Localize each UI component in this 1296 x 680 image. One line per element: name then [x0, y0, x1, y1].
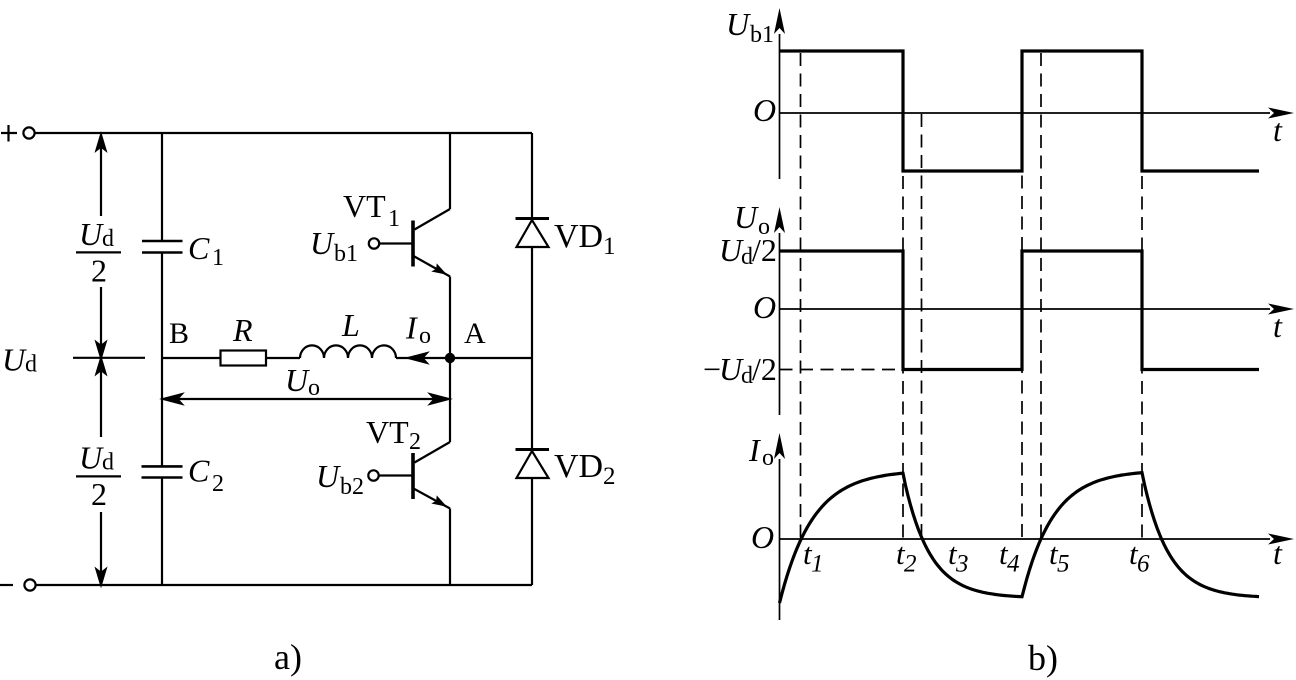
svg-text:4: 4 — [1007, 551, 1020, 578]
label Ub2 — [316, 458, 364, 500]
label VT2 — [366, 414, 421, 455]
label C2 — [188, 453, 224, 498]
svg-text:3: 3 — [955, 551, 969, 578]
dashed line t3 — [921, 114, 923, 539]
dashed line t4 — [1021, 114, 1023, 539]
diode VD2 — [516, 358, 550, 585]
label O origin 1 — [753, 92, 776, 128]
svg-text:A: A — [464, 317, 486, 350]
svg-text:2: 2 — [409, 429, 421, 455]
label t4 — [999, 536, 1020, 578]
axis Uo plot — [774, 207, 1294, 415]
svg-text:6: 6 — [1137, 551, 1150, 578]
svg-text:VT: VT — [343, 188, 386, 224]
svg-text:L: L — [341, 307, 360, 343]
svg-text:1: 1 — [603, 233, 616, 260]
waveform Uo square wave — [780, 251, 1260, 370]
svg-text:o: o — [419, 323, 431, 349]
label Ud source — [2, 342, 37, 378]
dimension arrow Ud/2 lower — [97, 359, 106, 585]
svg-text:5: 5 — [1057, 551, 1070, 578]
plus terminal sign — [1, 125, 17, 142]
svg-text:U: U — [79, 440, 104, 476]
svg-text:U: U — [310, 225, 335, 261]
label O origin 2 — [753, 289, 776, 325]
wire R to L — [266, 357, 300, 359]
svg-text:1: 1 — [388, 206, 400, 232]
diode VD1 — [516, 133, 550, 358]
waveform Ub1 square wave — [780, 51, 1260, 171]
wire mid line B to R — [162, 357, 221, 359]
capacitor C1 — [142, 241, 183, 253]
svg-text:U: U — [734, 199, 759, 235]
dashed level -Ud/2 — [780, 369, 904, 371]
label Ud fraction lower — [76, 440, 121, 513]
svg-text:C: C — [188, 453, 210, 489]
svg-text:a): a) — [274, 637, 302, 677]
svg-text:d: d — [25, 352, 37, 378]
svg-text:b1: b1 — [334, 241, 358, 267]
label R — [232, 312, 253, 348]
svg-text:U: U — [79, 216, 104, 252]
svg-text:O: O — [753, 289, 776, 325]
label C1 — [188, 230, 224, 271]
dimension tick Ud mid — [73, 357, 145, 359]
axis Io plot — [774, 433, 1294, 620]
svg-text:I: I — [405, 310, 418, 346]
waveform Io current curve — [780, 473, 1260, 603]
svg-text:2: 2 — [91, 253, 107, 289]
inductor L — [300, 345, 396, 358]
wire bottom rail — [36, 584, 532, 586]
label t axis 1 — [1273, 112, 1283, 148]
dashed line t1 — [800, 53, 802, 539]
resistor R — [221, 351, 267, 366]
dimension arrow Ud/2 upper — [97, 135, 106, 358]
svg-text:O: O — [753, 92, 776, 128]
node A junction dot — [445, 353, 455, 363]
label b) — [1028, 638, 1058, 678]
svg-text:VT: VT — [366, 414, 409, 450]
label Ud fraction upper — [76, 216, 121, 289]
transistor VT1 — [369, 133, 450, 358]
svg-text:o: o — [308, 375, 320, 401]
label Ud/2 level — [719, 232, 777, 270]
wire capacitor branch — [161, 133, 163, 585]
label t2 — [896, 536, 917, 578]
svg-text:/2: /2 — [752, 232, 777, 268]
label node A — [464, 317, 486, 350]
wire top rail — [35, 132, 532, 134]
svg-text:R: R — [232, 312, 253, 348]
label Ub1 axis — [726, 6, 774, 48]
svg-text:/2: /2 — [752, 351, 777, 387]
svg-text:t: t — [1273, 535, 1283, 571]
svg-text:VD: VD — [554, 448, 603, 485]
svg-text:U: U — [2, 342, 27, 378]
dashed line t2 — [902, 53, 904, 539]
svg-text:b2: b2 — [340, 474, 364, 500]
label VD2 — [554, 448, 616, 490]
svg-text:b1: b1 — [750, 22, 774, 48]
label t axis 2 — [1273, 308, 1283, 344]
label t5 — [1049, 536, 1070, 578]
label a) — [274, 637, 302, 677]
label Uo circuit — [285, 362, 320, 401]
svg-text:1: 1 — [212, 245, 224, 271]
svg-text:2: 2 — [91, 476, 107, 512]
dimension arrow Uo — [164, 394, 449, 403]
svg-text:2: 2 — [904, 551, 917, 578]
label VT1 — [343, 188, 400, 232]
positive terminal circle — [23, 127, 34, 138]
svg-text:2: 2 — [212, 471, 224, 497]
svg-text:U: U — [726, 6, 751, 42]
label Uo axis — [734, 199, 770, 240]
label t axis 3 — [1273, 535, 1283, 571]
label t1 — [803, 536, 824, 578]
svg-text:VD: VD — [554, 218, 603, 255]
svg-text:I: I — [748, 432, 761, 468]
label Ub1 — [310, 225, 358, 267]
dashed line t5 — [1040, 53, 1042, 539]
svg-text:C: C — [188, 230, 210, 266]
negative terminal circle — [24, 579, 35, 590]
svg-text:O: O — [751, 519, 774, 555]
svg-text:d: d — [102, 450, 114, 476]
svg-text:t: t — [1273, 308, 1283, 344]
svg-text:t: t — [1273, 112, 1283, 148]
svg-text:b): b) — [1028, 638, 1058, 678]
svg-text:U: U — [285, 362, 310, 398]
capacitor C2 — [142, 466, 183, 477]
transistor VT2 — [368, 358, 450, 585]
dashed line t6 — [1141, 53, 1143, 539]
minus terminal sign — [0, 584, 13, 586]
axis Ub1 plot — [774, 8, 1294, 179]
label node B — [169, 317, 189, 350]
svg-text:B: B — [169, 317, 189, 350]
label O origin 3 — [751, 519, 774, 555]
wire L to node A with Io arrow — [396, 353, 450, 362]
label Io axis — [748, 432, 774, 471]
svg-text:o: o — [762, 445, 774, 471]
label -Ud/2 level — [703, 351, 777, 389]
label t3 — [948, 536, 969, 578]
label L — [341, 307, 360, 343]
svg-text:U: U — [316, 458, 341, 494]
label Io circuit — [405, 310, 431, 349]
label t6 — [1129, 536, 1150, 578]
svg-text:2: 2 — [603, 463, 616, 490]
wire node A to diode branch — [450, 357, 532, 359]
label VD1 — [554, 218, 616, 260]
svg-text:1: 1 — [811, 551, 824, 578]
svg-text:d: d — [102, 226, 114, 252]
